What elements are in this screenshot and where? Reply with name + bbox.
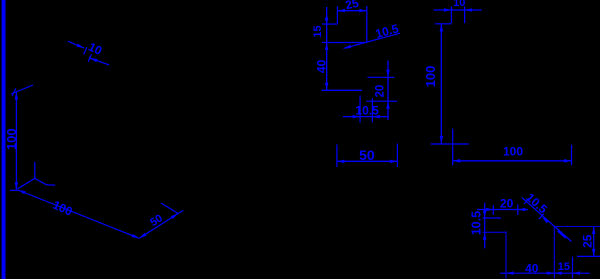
- svg-text:10.5: 10.5: [355, 104, 379, 118]
- svg-text:40: 40: [525, 262, 539, 276]
- svg-text:20: 20: [500, 196, 514, 210]
- svg-text:100: 100: [423, 66, 438, 88]
- svg-text:15: 15: [312, 25, 324, 37]
- svg-text:100: 100: [503, 144, 523, 158]
- svg-text:40: 40: [314, 59, 328, 73]
- svg-text:25: 25: [581, 234, 595, 248]
- svg-text:10.5: 10.5: [470, 211, 484, 235]
- svg-text:100: 100: [4, 128, 19, 150]
- svg-text:50: 50: [359, 147, 375, 163]
- svg-text:15: 15: [558, 261, 570, 273]
- svg-text:10: 10: [453, 0, 465, 9]
- svg-text:20: 20: [375, 85, 387, 98]
